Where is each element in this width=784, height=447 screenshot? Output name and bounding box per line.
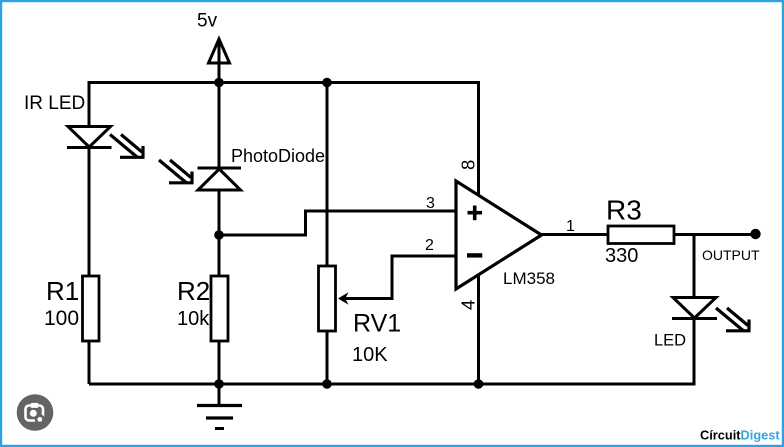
svg-text:100: 100: [44, 307, 79, 330]
svg-text:4: 4: [458, 300, 479, 310]
svg-text:5v: 5v: [197, 11, 218, 32]
svg-text:CírcuitDigest: CírcuitDigest: [700, 428, 780, 443]
svg-text:R3: R3: [606, 195, 642, 226]
svg-text:RV1: RV1: [353, 310, 401, 338]
svg-text:3: 3: [426, 195, 435, 212]
svg-text:1: 1: [566, 218, 575, 235]
svg-text:OUTPUT: OUTPUT: [702, 247, 760, 263]
svg-text:330: 330: [605, 245, 638, 267]
svg-text:R1: R1: [46, 276, 79, 306]
svg-text:10K: 10K: [352, 344, 388, 366]
svg-text:10k: 10k: [177, 308, 210, 330]
svg-text:R2: R2: [177, 276, 210, 306]
svg-text:LM358: LM358: [503, 269, 555, 288]
svg-text:2: 2: [425, 237, 434, 254]
svg-text:IR LED: IR LED: [24, 93, 85, 114]
svg-text:LED: LED: [654, 332, 686, 350]
svg-text:PhotoDiode: PhotoDiode: [231, 146, 325, 166]
svg-text:8: 8: [458, 160, 479, 170]
